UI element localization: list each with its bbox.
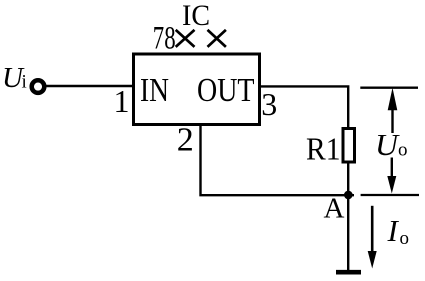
svg-text:R1: R1 — [306, 131, 341, 167]
label Uo — [375, 127, 408, 162]
label Io — [387, 213, 410, 249]
svg-text:i: i — [22, 72, 27, 93]
wire Ui to pin 1 — [45, 85, 134, 87]
wire pin 2 to node A — [201, 126, 355, 195]
label 78xx — [153, 21, 226, 57]
svg-text:U: U — [375, 127, 401, 162]
svg-text:o: o — [398, 140, 408, 161]
svg-text:I: I — [387, 213, 400, 248]
Uo arrow up — [388, 88, 398, 133]
svg-text:IN: IN — [140, 72, 169, 109]
ground — [336, 270, 361, 275]
wire pin 3 OUT to resistor R1 — [261, 86, 348, 128]
label Ui — [2, 62, 27, 94]
svg-text:3: 3 — [261, 86, 277, 122]
resistor R1 — [343, 129, 355, 163]
Uo bottom tick — [361, 194, 419, 196]
Uo arrow down — [387, 158, 396, 194]
svg-text:A: A — [324, 193, 345, 225]
svg-text:1: 1 — [114, 83, 130, 119]
svg-text:o: o — [400, 228, 410, 249]
svg-text:OUT: OUT — [197, 72, 255, 109]
terminal Ui input — [32, 80, 45, 93]
Uo top tick — [360, 87, 418, 89]
wire R1 to node A — [347, 164, 349, 197]
wire node A to ground — [347, 195, 349, 270]
svg-text:IC: IC — [182, 0, 210, 32]
svg-text:2: 2 — [177, 122, 194, 159]
svg-text:78: 78 — [153, 21, 176, 57]
node A junction dot — [344, 191, 353, 200]
IC box U1 — [134, 54, 260, 125]
Io arrow — [368, 206, 377, 269]
